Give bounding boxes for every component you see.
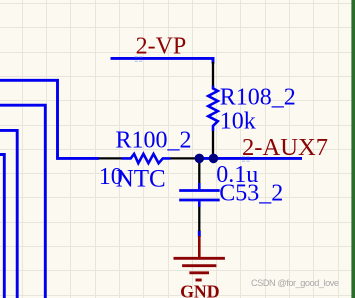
- wire 2-VP net: [111, 58, 214, 63]
- resistor R100_2 pin 1 (left): [99, 157, 122, 159]
- wire W1 (left nested, to R100): [0, 80, 99, 158]
- junction dot (R100 pin / wire): [195, 154, 205, 164]
- svg-text:R108_2: R108_2: [220, 84, 296, 110]
- capacitor C53_2 body: [179, 183, 220, 207]
- wire W2: [0, 105, 45, 298]
- svg-text:CSDN @for_good_love: CSDN @for_good_love: [251, 278, 339, 288]
- resistor R108_2 body: [208, 86, 218, 132]
- resistor R108_2 pin 2 (bottom): [212, 131, 214, 155]
- wire 2-AUX7 net: [199, 157, 302, 160]
- capacitor C53_2 pin 2 (bottom): [198, 207, 200, 232]
- selection mark (AUX wire): [242, 156, 250, 162]
- svg-text:2-VP: 2-VP: [136, 33, 187, 59]
- svg-text:R100_2: R100_2: [116, 127, 192, 153]
- power port GND: [174, 236, 225, 280]
- wire W3: [0, 130, 17, 298]
- svg-text:GND: GND: [180, 282, 220, 298]
- sheet border (green): [351, 0, 355, 298]
- svg-text:2-AUX7: 2-AUX7: [242, 134, 328, 161]
- resistor R108_2 pin 1 (top): [212, 62, 214, 86]
- wire W4: [0, 155, 4, 298]
- resistor R100_2 body: [121, 154, 170, 163]
- selection mark (VP wire): [135, 56, 143, 62]
- junction dot (R108 / C53 / wire): [209, 154, 219, 164]
- resistor R100_2 pin 2 (right): [170, 157, 196, 159]
- svg-text:C53_2: C53_2: [219, 180, 283, 206]
- svg-text:NTC: NTC: [116, 166, 166, 193]
- capacitor C53_2 pin 1 (top): [198, 161, 200, 184]
- wire cap to GND: [198, 231, 201, 238]
- svg-text:10k: 10k: [220, 108, 256, 134]
